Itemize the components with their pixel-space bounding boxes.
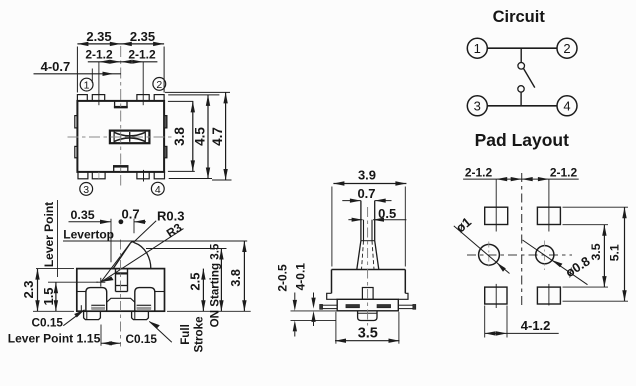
svg-text:4-0.7: 4-0.7 <box>41 59 71 74</box>
upper contact circle <box>518 63 525 70</box>
lever dome left edge <box>113 243 130 268</box>
side tab left upper <box>75 116 78 128</box>
circled pin number 2 <box>153 78 166 91</box>
side tab right upper <box>164 116 167 128</box>
svg-text:Stroke: Stroke <box>193 316 206 353</box>
lever column divider upper <box>116 272 128 274</box>
terminal pad bottom-right corner <box>154 172 164 179</box>
svg-text:0.7: 0.7 <box>357 186 375 201</box>
plate slot right <box>377 305 391 308</box>
terminal pad top-right corner <box>154 95 164 101</box>
svg-text:2.5: 2.5 <box>188 273 203 291</box>
extension line lower pad bottom right (5.1 bottom) <box>563 300 629 302</box>
left leg <box>322 304 338 306</box>
extension line 4-1.2 left <box>484 306 486 338</box>
stem lever outer left <box>360 201 362 241</box>
svg-text:3: 3 <box>474 99 481 114</box>
pad bottom-left <box>485 287 507 304</box>
horizontal center line <box>68 136 175 138</box>
extension line at pad B center <box>98 62 100 105</box>
terminal pad bottom-left corner <box>78 172 88 179</box>
center floor between pockets <box>107 298 135 302</box>
left foot <box>84 311 101 319</box>
extension line through bottom pad C' <box>143 170 145 182</box>
dimension 3.8 line <box>243 241 245 311</box>
bottom center notch <box>114 166 128 172</box>
terminal circle 3 <box>467 96 487 116</box>
lever dome right curved edge <box>130 242 151 268</box>
right side tab <box>398 293 408 299</box>
left hole circle <box>479 244 500 265</box>
svg-text:R0.3: R0.3 <box>157 208 184 223</box>
extension line plate bottom left <box>291 310 337 312</box>
stem taper left <box>357 241 361 270</box>
base plate <box>337 299 398 311</box>
svg-text:2.35: 2.35 <box>130 29 155 44</box>
stem step <box>361 240 375 242</box>
extension line through bottom pad B' <box>98 172 100 180</box>
vertical center line <box>120 46 122 186</box>
svg-text:5.1: 5.1 <box>608 244 622 261</box>
svg-text:3.8: 3.8 <box>229 269 243 286</box>
dimension line 3.5 <box>603 225 605 287</box>
svg-text:3.9: 3.9 <box>358 168 376 183</box>
body left side <box>331 270 333 294</box>
wire lower contact to 3-4 <box>520 92 522 106</box>
svg-text:3: 3 <box>83 184 89 196</box>
stem lever inner left <box>363 220 365 241</box>
circled pin number 3 <box>80 183 93 196</box>
extension line body top right <box>168 100 193 102</box>
left side tab <box>327 293 338 299</box>
C0.15 left leader <box>63 310 84 326</box>
extension line pivot level left <box>48 281 98 283</box>
R0.3 leader line <box>134 221 156 242</box>
svg-text:Full: Full <box>179 324 192 345</box>
lever base column left side <box>115 269 117 292</box>
dimension line 3.8 vertical <box>192 101 194 171</box>
actuator left end cap <box>113 131 115 144</box>
body interior shelf left <box>77 291 86 293</box>
extension line 4-1.2 right <box>506 306 508 338</box>
right pads center line upper <box>548 179 550 231</box>
svg-text:2-1.2: 2-1.2 <box>465 166 493 180</box>
svg-text:1: 1 <box>84 80 90 92</box>
lever base column right side <box>127 269 129 292</box>
dimension line 4-1.2 <box>485 332 559 334</box>
right hole circle <box>536 246 554 264</box>
extension line right for 2.35 <box>163 47 165 93</box>
extension line at x111 <box>110 219 112 263</box>
extension line right 3.9 <box>404 187 406 267</box>
right terminal hatched pad <box>137 305 152 310</box>
svg-text:4.5: 4.5 <box>193 127 208 146</box>
stem lever outer right <box>374 201 376 241</box>
svg-text:3.5: 3.5 <box>589 243 603 260</box>
vertical center line <box>521 173 523 309</box>
actuator bowtie top edge <box>114 132 145 136</box>
left circle vertical tick <box>488 242 490 270</box>
lever center line vertical <box>120 240 122 347</box>
extension line at x134 <box>133 219 135 234</box>
extension line bottom pads level right <box>169 178 212 180</box>
extension line lower pad top right (3.5 bottom) <box>563 286 609 288</box>
svg-text:2-1.2: 2-1.2 <box>550 166 578 180</box>
lower contact circle <box>518 86 524 92</box>
svg-text:C0.15: C0.15 <box>126 332 158 346</box>
dimension 1.15 arrows <box>101 342 121 344</box>
actuator center divider <box>129 132 131 142</box>
dimension 0.7 arrow <box>134 221 146 223</box>
dimension 0.7 arrows <box>342 200 361 202</box>
horizontal center line through circles <box>467 254 572 256</box>
front view center line <box>367 207 369 326</box>
extension line bottom right <box>167 310 251 312</box>
dimension 2-0.5 arrows <box>294 293 296 300</box>
svg-text:0.7: 0.7 <box>122 207 140 222</box>
pad bottom-right <box>537 287 560 304</box>
plate slot left <box>346 305 360 308</box>
ON starting level line <box>146 248 227 250</box>
terminal pad top-left corner <box>77 95 87 101</box>
dimension 1.5 line <box>55 282 57 311</box>
wire junction to upper contact <box>520 48 522 62</box>
svg-text:0.35: 0.35 <box>71 208 95 222</box>
bottom center tab <box>358 311 377 321</box>
dimension 0.5 arrows <box>348 219 362 221</box>
svg-text:2.3: 2.3 <box>21 280 36 298</box>
svg-text:2: 2 <box>563 41 570 56</box>
svg-text:2-1.2: 2-1.2 <box>128 48 156 62</box>
svg-text:Lever Point: Lever Point <box>8 332 73 346</box>
actuator bowtie bottom edge <box>114 138 145 142</box>
leader line 4-0.7 <box>34 73 122 75</box>
extension line body bottom right <box>168 170 195 172</box>
lever column bottom <box>116 291 128 293</box>
pivot cross vertical <box>100 278 102 287</box>
svg-text:3.8: 3.8 <box>172 127 187 146</box>
extension line left for 2.35 <box>76 47 78 93</box>
left foot notch <box>80 305 82 311</box>
center tower <box>362 288 373 300</box>
svg-text:4: 4 <box>563 99 570 114</box>
circled pin number 1 <box>80 78 93 91</box>
right leg <box>398 304 414 306</box>
body outline (side view) <box>77 269 165 312</box>
dimension 2.5 line <box>202 269 204 312</box>
extension line tab bottom left <box>291 319 337 321</box>
lever point extension line <box>100 325 102 346</box>
pad top-right <box>537 207 560 224</box>
extension line pad top right <box>563 206 629 208</box>
dimension line 2.35 <box>77 43 164 45</box>
extension line body top left <box>36 268 74 270</box>
extension line 3.5 left <box>335 312 337 344</box>
svg-text:4-1.2: 4-1.2 <box>521 318 551 333</box>
switch body outline (top view) <box>77 101 164 172</box>
actuator right end cap <box>144 131 146 144</box>
right circle vertical tick <box>543 241 545 271</box>
body interior shelf right <box>155 291 165 293</box>
svg-text:C0.15: C0.15 <box>32 316 64 330</box>
svg-text:2-0.5: 2-0.5 <box>275 264 289 292</box>
right foot <box>132 311 149 319</box>
terminal pad top inner-right <box>137 95 149 101</box>
terminal circle 1 <box>467 38 487 58</box>
dimension line 4.5 vertical <box>207 95 209 179</box>
levertop reference line <box>63 240 247 242</box>
terminal pad bottom inner-right <box>137 172 149 179</box>
R3 leader line from pivot <box>101 229 184 283</box>
actuator slot outer rectangle <box>110 131 149 144</box>
extension line pad bottom level right (3.5 top) <box>563 224 609 226</box>
dia 1 leader line through left circle <box>454 226 510 274</box>
dimension line 0.35 with arrow <box>69 221 112 223</box>
dimension 4-0.1 arrows <box>313 293 315 298</box>
left pads center line lower <box>495 284 497 308</box>
pad top-left <box>485 207 508 224</box>
dia 0.8 leader line through right circle <box>523 240 588 285</box>
extension line 3.5 right <box>398 312 400 344</box>
lever column divider lower <box>116 285 128 287</box>
wire 3-4 <box>488 105 557 107</box>
extension line left 3.9 <box>331 187 333 267</box>
side tab left lower <box>75 146 78 157</box>
terminal circle 4 <box>557 96 577 116</box>
extension line bottom left <box>33 310 74 312</box>
stem taper right <box>375 241 379 270</box>
svg-text:2-1.2: 2-1.2 <box>85 48 113 62</box>
lever point dot <box>119 219 124 224</box>
dimension line 4.7 vertical <box>225 92 227 180</box>
lever point witness line <box>57 200 59 277</box>
svg-text:Levertop: Levertop <box>63 227 114 241</box>
bottom tab inner line <box>358 312 377 314</box>
body right side <box>404 270 406 294</box>
switch blade (open) <box>524 69 535 88</box>
wire 1-2 <box>488 47 557 49</box>
lever radius line pivot to apex <box>101 244 130 282</box>
terminal pad bottom inner-left <box>92 172 105 179</box>
svg-text:Circuit: Circuit <box>493 8 546 26</box>
svg-text:Lever Point: Lever Point <box>42 202 56 267</box>
svg-text:1: 1 <box>474 41 481 56</box>
dimension line 3.5 <box>335 340 400 342</box>
circled pin number 4 <box>151 182 164 195</box>
extension line top pads level right <box>165 91 230 93</box>
left terminal hatched pad <box>91 305 105 310</box>
stem taper hidden right <box>372 241 374 270</box>
dimension 2.3 line <box>37 269 39 312</box>
terminal circle 2 <box>557 38 577 58</box>
C0.15 right leader <box>149 321 172 342</box>
left contact pocket <box>86 288 107 312</box>
body top edge <box>332 269 406 271</box>
side tab right lower <box>164 146 167 157</box>
top center notch <box>115 101 127 108</box>
svg-text:Pad Layout: Pad Layout <box>475 130 569 150</box>
terminal pad top inner-left <box>92 95 104 101</box>
svg-text:2.35: 2.35 <box>86 29 111 44</box>
right contact pocket <box>135 288 155 312</box>
left pads center line upper <box>495 179 497 231</box>
extension line at pad B left edge <box>91 69 93 84</box>
dimension ON Starting 3.5 line <box>220 249 222 312</box>
stem taper hidden left <box>362 241 364 270</box>
svg-text:4.7: 4.7 <box>210 127 225 146</box>
dimension line 5.1 <box>624 207 626 301</box>
dimension line 2-1.2 <box>463 178 579 180</box>
svg-text:3.5: 3.5 <box>358 326 378 342</box>
pivot cross horizontal <box>96 281 105 283</box>
svg-text:1.15: 1.15 <box>77 332 101 346</box>
extension line at pad C center <box>142 62 144 105</box>
dimension line 3.9 <box>333 183 406 185</box>
svg-text:1.5: 1.5 <box>41 287 56 305</box>
svg-text:ON Starting 3.5: ON Starting 3.5 <box>208 243 221 327</box>
svg-text:4-0.1: 4-0.1 <box>294 263 308 291</box>
svg-text:2: 2 <box>156 79 162 91</box>
right pads center line lower <box>548 284 550 306</box>
dimension line 2-1.2 <box>88 61 158 63</box>
svg-text:4: 4 <box>155 184 161 196</box>
stem lever inner right <box>371 220 373 241</box>
